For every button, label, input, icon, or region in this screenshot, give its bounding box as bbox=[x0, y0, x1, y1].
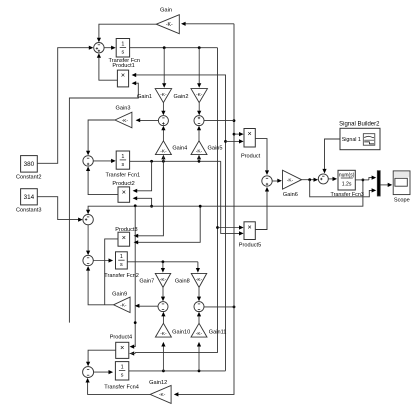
svg-text:Gain8: Gain8 bbox=[175, 278, 190, 284]
sum Sum4 bbox=[83, 255, 93, 265]
svg-text:-K-: -K- bbox=[160, 277, 167, 283]
product block Product5 bbox=[244, 222, 255, 240]
svg-text:Gain5: Gain5 bbox=[208, 146, 223, 152]
gain block Gain4 (pointing up) bbox=[155, 141, 171, 155]
gain block Gain8 (pointing down) bbox=[191, 273, 207, 287]
svg-text:Transfer Fcn3: Transfer Fcn3 bbox=[331, 192, 364, 198]
wire y into Product2 lower input bbox=[136, 198, 152, 206]
wire Transfer Fcn1 output x2 line with taps bbox=[130, 160, 221, 162]
gain block Gain12 (pointing left) bbox=[150, 385, 171, 403]
wire eta line to Gain input bbox=[184, 23, 234, 25]
svg-text:×: × bbox=[122, 188, 126, 197]
wire Gain6 output to Sum11 with tap to mux line B bbox=[302, 179, 316, 181]
wire y loop into Product1 lower input bbox=[69, 83, 138, 322]
wire Constant3 to Sum3 left input bbox=[37, 197, 80, 220]
svg-text:Gain2: Gain2 bbox=[174, 94, 189, 100]
svg-text:380: 380 bbox=[24, 161, 35, 168]
wire Gain output to Sum1 top bbox=[99, 24, 156, 39]
wire Sum7 output to Gain9 bbox=[136, 305, 158, 307]
wire x2 down to Product2 upper input bbox=[136, 161, 152, 191]
wire Sum2 to Transfer Fcn1 bbox=[93, 160, 113, 162]
wire Sum6 output joins eta vertical bbox=[204, 120, 234, 122]
svg-text:×: × bbox=[121, 71, 125, 80]
wire Constant2 to Sum1 left input bbox=[37, 48, 90, 164]
wire Product2 output to Sum2 bottom bbox=[88, 169, 118, 194]
wire Gain3 output to Sum2 top bbox=[88, 120, 115, 153]
sum Sum7 bbox=[158, 302, 168, 312]
wire Sum4 to Transfer Fcn2 bbox=[93, 260, 110, 262]
svg-text:1: 1 bbox=[120, 254, 123, 260]
wire Product1 output to Sum1 bottom bbox=[99, 57, 118, 81]
svg-text:Gain9: Gain9 bbox=[112, 291, 127, 297]
svg-text:-K-: -K- bbox=[196, 148, 203, 154]
svg-text:×: × bbox=[248, 129, 252, 138]
mux block Mux bbox=[377, 171, 380, 196]
product block Product1 bbox=[117, 70, 128, 87]
svg-text:s: s bbox=[120, 262, 123, 268]
sum Sum10 bbox=[262, 176, 272, 186]
gain block Gain9 (pointing left) bbox=[114, 297, 131, 313]
wire Sum5 output to Gain3 bbox=[137, 120, 159, 122]
wire Sum10 to Gain6 bbox=[272, 180, 279, 182]
svg-text:-K-: -K- bbox=[160, 92, 167, 98]
svg-text:Scope: Scope bbox=[394, 198, 410, 204]
wire Gain2 output to Sum6 top bbox=[198, 103, 200, 113]
transfer fcn block Transfer Fcn2 (1/s) bbox=[116, 252, 128, 269]
svg-text:Product2: Product2 bbox=[112, 181, 134, 187]
svg-text:Gain3: Gain3 bbox=[116, 105, 131, 111]
wire Transfer Fcn output x1 line across with taps bbox=[130, 47, 218, 49]
svg-text:-K-: -K- bbox=[120, 303, 127, 309]
wire y tap to Product3 lower input (via x=200 vertical) bbox=[137, 206, 200, 242]
gain block Gain6 (pointing right) bbox=[283, 170, 302, 189]
svg-text:Constant2: Constant2 bbox=[16, 175, 42, 181]
svg-text:Constant3: Constant3 bbox=[16, 207, 42, 213]
gain block Gain10 (pointing up) bbox=[155, 323, 171, 337]
wire x2 vertical V2 to Product5 lower input bbox=[221, 161, 241, 233]
svg-text:s: s bbox=[122, 162, 125, 168]
svg-text:1.2s: 1.2s bbox=[342, 182, 352, 188]
svg-text:Gain10: Gain10 bbox=[172, 330, 190, 336]
wire Sum11 to Transfer Fcn3 bbox=[328, 178, 334, 180]
wire Product4 output to Sum9 top bbox=[88, 350, 116, 363]
svg-text:1: 1 bbox=[121, 365, 124, 371]
svg-text:Product5: Product5 bbox=[239, 242, 261, 248]
svg-text:Gain4: Gain4 bbox=[172, 146, 187, 152]
product block Product bbox=[244, 129, 255, 148]
svg-text:1: 1 bbox=[121, 42, 124, 48]
sum Sum6 bbox=[194, 116, 204, 126]
wire line B Gain6 output to Mux lower input bbox=[310, 180, 374, 197]
svg-text:1: 1 bbox=[121, 154, 124, 160]
wire Gain11 output to Sum8 bottom bbox=[198, 314, 200, 323]
gain block Gain3 (pointing left) bbox=[115, 112, 132, 128]
wire x4 into Product1 upper input bbox=[135, 75, 226, 371]
wire Mux output to Scope bbox=[380, 184, 389, 186]
sum Sum11 bbox=[318, 174, 328, 184]
svg-text:-K-: -K- bbox=[196, 331, 203, 337]
svg-text:×: × bbox=[120, 343, 124, 352]
sum Sum5 bbox=[158, 116, 168, 126]
wire Sum3 output down to Sum4 top bbox=[87, 225, 89, 253]
svg-text:-K-: -K- bbox=[166, 22, 173, 28]
wire x2 up into Gain4 bbox=[161, 155, 165, 160]
gain block Gain1 (pointing down) bbox=[155, 89, 172, 103]
sum Sum1 bbox=[94, 43, 104, 53]
svg-text:Transfer Fcn1: Transfer Fcn1 bbox=[105, 172, 140, 178]
wire Sum1 to Transfer Fcn bbox=[104, 47, 113, 49]
wire x1 down to Gain2 bbox=[198, 48, 200, 84]
wire Signal Builder2 output to Sum11 top bbox=[325, 139, 341, 171]
wire Sum8 output joins eta vertical bbox=[204, 306, 234, 308]
svg-text:Gain6: Gain6 bbox=[283, 192, 298, 198]
svg-text:Product4: Product4 bbox=[110, 335, 132, 341]
svg-text:-K-: -K- bbox=[160, 148, 167, 154]
gain block Gain11 (pointing up) bbox=[191, 323, 207, 337]
constant block Constant2 (380) bbox=[21, 156, 38, 173]
wire Gain5 output to Sum6 bottom bbox=[198, 128, 200, 140]
wire eta V5 into Gain12 input bbox=[177, 24, 234, 395]
svg-text:s: s bbox=[122, 50, 125, 56]
svg-text:×: × bbox=[248, 222, 252, 231]
wire Transfer Fcn3 output to Mux upper input bbox=[355, 179, 369, 181]
transfer fcn block Transfer Fcn1 (1/s) bbox=[116, 151, 129, 169]
wire Gain8 output to Sum8 top bbox=[198, 288, 200, 299]
wire Sum9 to Transfer Fcn4 bbox=[94, 371, 111, 373]
svg-text:s: s bbox=[121, 373, 124, 379]
wire x2 up into Gain5 bbox=[197, 155, 201, 160]
svg-text:-K-: -K- bbox=[196, 277, 203, 283]
svg-text:-K-: -K- bbox=[159, 392, 166, 398]
wire x1 vertical V1 down right side bbox=[135, 48, 217, 353]
svg-text:-K-: -K- bbox=[160, 331, 167, 337]
svg-text:Signal 1: Signal 1 bbox=[342, 137, 361, 143]
constant block Constant3 (314) bbox=[21, 189, 38, 205]
wire Gain4 output to Sum5 bottom bbox=[162, 128, 164, 140]
gain block Gain5 (pointing up) bbox=[191, 141, 207, 155]
svg-text:Gain7: Gain7 bbox=[139, 278, 154, 284]
transfer fcn block Transfer Fcn4 (1/s) bbox=[115, 362, 128, 380]
svg-text:Transfer Fcn2: Transfer Fcn2 bbox=[104, 273, 139, 279]
gain block Gain2 (pointing down) bbox=[191, 89, 208, 103]
svg-text:Gain12: Gain12 bbox=[149, 380, 167, 386]
wire Gain1 output to Sum5 top bbox=[162, 103, 164, 113]
sum Sum9 bbox=[83, 367, 94, 378]
sum Sum8 bbox=[194, 302, 204, 312]
svg-text:Transfer Fcn4: Transfer Fcn4 bbox=[104, 384, 139, 390]
svg-text:Gain: Gain bbox=[160, 8, 172, 14]
wire Product3 output down-left bbox=[105, 239, 118, 305]
transfer fcn block Transfer Fcn (1/s) bbox=[116, 39, 129, 58]
wire eta tap to Product upper input bbox=[234, 133, 241, 135]
svg-text:×: × bbox=[122, 233, 126, 242]
gain block Gain7 (pointing down) bbox=[155, 273, 171, 287]
svg-text:Product1: Product1 bbox=[112, 63, 134, 69]
wire Product5 output to Sum10 bottom bbox=[255, 190, 267, 230]
wire Gain9 output to Sum4 bottom bbox=[88, 269, 114, 305]
svg-text:Signal Builder2: Signal Builder2 bbox=[339, 121, 380, 127]
wire x2 down to Product3 upper input bbox=[137, 161, 164, 236]
gain block Gain (top, -K-, pointing left) bbox=[156, 15, 179, 34]
wire x4 line from Transfer Fcn4 with taps to Gain10 Gain11 bbox=[129, 370, 226, 372]
sum Sum2 bbox=[83, 156, 93, 166]
svg-text:314: 314 bbox=[24, 194, 35, 201]
wire line A output feedback y (from Transfer Fcn3) to Sum3 top bbox=[88, 180, 363, 212]
wire Gain12 output to Sum9 bottom bbox=[88, 381, 151, 395]
svg-text:-K-: -K- bbox=[196, 92, 203, 98]
wire Gain7 output to Sum7 top bbox=[162, 288, 164, 299]
svg-text:-K-: -K- bbox=[122, 118, 129, 124]
wire y down V6 to Product4 upper input bbox=[132, 206, 136, 346]
svg-text:Gain1: Gain1 bbox=[137, 94, 152, 100]
wire Transfer Fcn2 output x3 to Gain7 and Gain8 bbox=[127, 261, 198, 263]
svg-text:-K-: -K- bbox=[287, 178, 294, 184]
wire Product output to Sum10 top bbox=[255, 139, 267, 173]
wire x1 to Product4 lower input bbox=[130, 351, 135, 355]
wire x4 tap to Product lower input bbox=[224, 140, 227, 143]
wire x1 down to Gain1 bbox=[163, 48, 165, 84]
scope block Scope bbox=[393, 171, 410, 195]
sum Sum3 bbox=[83, 214, 93, 224]
svg-text:Gain11: Gain11 bbox=[209, 330, 227, 336]
transfer fcn block Transfer Fcn3 (num(s)/1.2s) bbox=[338, 170, 355, 190]
wire x1 tap to Product5 upper input bbox=[216, 226, 219, 229]
wire Gain10 output to Sum7 bottom bbox=[162, 314, 164, 323]
svg-text:Product: Product bbox=[241, 153, 261, 159]
